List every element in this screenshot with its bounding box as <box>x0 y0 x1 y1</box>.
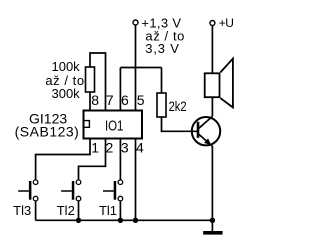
svg-text:2k2: 2k2 <box>169 98 187 114</box>
svg-text:300k: 300k <box>51 86 80 101</box>
svg-text:Tl2: Tl2 <box>57 203 75 218</box>
svg-text:+U: +U <box>219 16 234 30</box>
svg-text:4: 4 <box>136 140 144 156</box>
svg-text:Tl1: Tl1 <box>99 203 117 218</box>
svg-text:3,3 V: 3,3 V <box>145 41 180 56</box>
svg-text:8: 8 <box>91 92 99 108</box>
svg-text:5: 5 <box>137 92 145 108</box>
svg-text:6: 6 <box>121 92 129 108</box>
svg-text:1: 1 <box>91 140 99 156</box>
svg-text:7: 7 <box>106 92 114 108</box>
svg-text:Tl3: Tl3 <box>13 203 31 218</box>
svg-text:2: 2 <box>106 140 114 156</box>
svg-text:IO1: IO1 <box>105 117 124 134</box>
svg-text:100k: 100k <box>51 59 80 74</box>
svg-text:(SAB123): (SAB123) <box>15 124 80 140</box>
svg-text:3: 3 <box>121 140 129 156</box>
